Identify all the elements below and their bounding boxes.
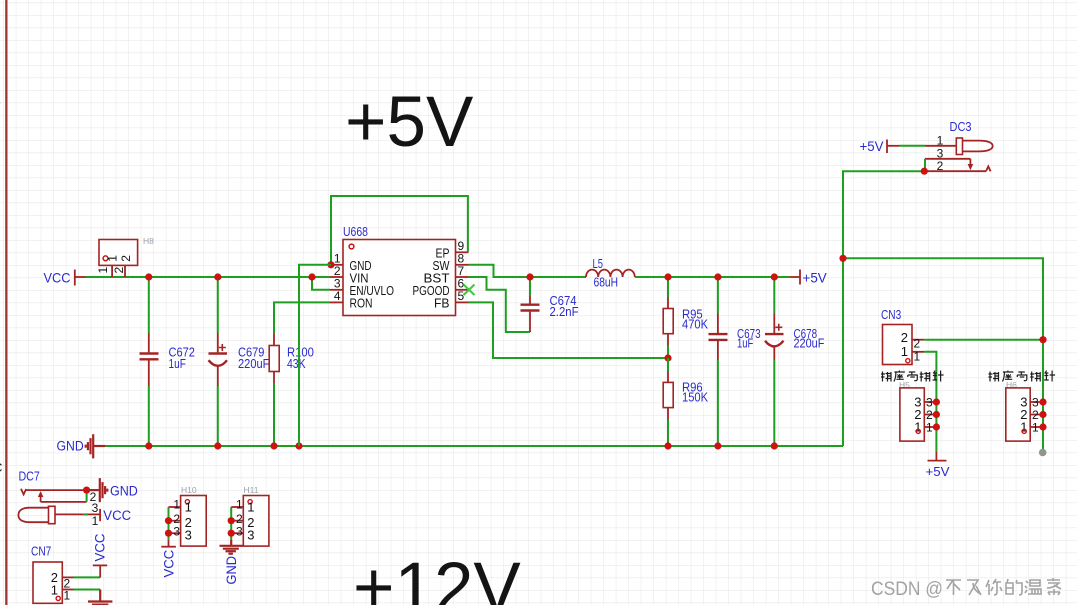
inductor L5 — [586, 270, 635, 277]
svg-text:1: 1 — [247, 500, 254, 515]
svg-text:1: 1 — [236, 498, 243, 512]
svg-text:470K: 470K — [682, 317, 708, 332]
wire +5V horizontal to right — [843, 258, 1043, 452]
svg-text:150K: 150K — [682, 390, 708, 405]
junction C678 bottom — [771, 442, 778, 449]
wire pin1 to GND rail — [299, 265, 331, 446]
resistor R100 — [273, 303, 275, 335]
junction pin1 — [327, 261, 334, 268]
wire BST to C674 bottom — [469, 277, 531, 332]
capacitor C674 — [529, 277, 531, 296]
power GND at DC7 — [87, 478, 108, 502]
svg-text:2.2nF: 2.2nF — [550, 304, 579, 319]
H11 pin 3 — [231, 532, 243, 534]
U668 pin 6 PGOOD — [456, 289, 469, 291]
svg-text:VCC: VCC — [161, 549, 176, 577]
header socket label B (CJK, drawn as paths) — [989, 371, 1056, 382]
junction DC3 pin2 — [921, 168, 928, 175]
junction C678 top — [771, 273, 778, 280]
junction C672/VCC — [145, 273, 152, 280]
svg-text:3: 3 — [247, 528, 254, 543]
wire DC3 pin3 jog — [924, 159, 926, 171]
H5 pin 2 — [924, 414, 936, 416]
svg-text:3: 3 — [185, 528, 192, 543]
wire +5V to DC3 pin1 — [899, 145, 925, 147]
connector H8 — [99, 240, 138, 266]
svg-text:VCC: VCC — [93, 533, 108, 561]
svg-text:2: 2 — [901, 330, 908, 345]
wire nub on DC7 pin1 — [83, 513, 88, 515]
svg-text:3: 3 — [173, 524, 180, 538]
junction C673 bottom — [714, 442, 721, 449]
sheet border left edge — [5, 0, 7, 605]
wire SW to rail — [469, 265, 587, 277]
wire +5V vertical net — [843, 171, 924, 446]
svg-text:GND: GND — [224, 556, 239, 585]
H6 pin 3 — [1030, 401, 1043, 403]
header H5 body — [900, 388, 924, 441]
svg-text:68uH: 68uH — [594, 275, 619, 290]
H5 pin 3 — [924, 401, 936, 403]
power GND below CN7 wire — [88, 590, 112, 605]
watermark CJK glyphs — [946, 578, 1061, 595]
svg-text:VCC: VCC — [103, 508, 131, 523]
H11 pin 1 — [231, 506, 243, 508]
H5 pin 1 — [924, 426, 936, 428]
power VCC below H10 — [168, 540, 170, 547]
junction +5V corner — [839, 255, 846, 262]
CN3 pin 2 — [912, 339, 924, 341]
junction DC7 pin2 — [83, 487, 90, 494]
junction dots on GND rail — [145, 442, 152, 449]
port +5V mid — [790, 276, 800, 278]
wire CN3 pin1 down — [924, 352, 936, 452]
svg-text:1: 1 — [901, 344, 908, 359]
junction pin2 — [308, 273, 315, 280]
U668 pin 5 FB — [456, 301, 469, 303]
svg-text:1: 1 — [926, 420, 933, 434]
U668 pin 8 SW — [456, 264, 469, 266]
junction R95/R96 FB node — [664, 354, 671, 361]
svg-text:C: C — [0, 460, 2, 475]
svg-text:CSDN @: CSDN @ — [871, 579, 943, 600]
svg-text:1: 1 — [51, 582, 58, 597]
power VCC above CN7 wire — [99, 565, 101, 577]
H6 pin 2 — [1030, 414, 1043, 416]
U668 pin 7 BST — [456, 276, 469, 278]
svg-text:3: 3 — [236, 524, 243, 538]
junction R95/VCC — [664, 273, 671, 280]
svg-text:DC3: DC3 — [950, 119, 972, 134]
resistor R96 — [667, 358, 669, 371]
svg-text:+5V: +5V — [803, 270, 828, 286]
svg-text:5: 5 — [458, 289, 465, 303]
header H6 body — [1006, 388, 1030, 441]
no-ERC cross on PGOOD — [464, 285, 475, 296]
svg-text:43K: 43K — [287, 356, 306, 371]
wire FB to divider — [469, 302, 669, 358]
svg-text:H10: H10 — [181, 485, 197, 495]
svg-text:1uF: 1uF — [169, 356, 186, 371]
U668 pin 1 GND — [330, 264, 343, 266]
svg-text:3: 3 — [92, 501, 99, 515]
svg-text:1: 1 — [64, 588, 71, 602]
svg-text:RON: RON — [350, 295, 373, 310]
junction R96/GND — [664, 442, 671, 449]
CN7 pin 1 — [62, 589, 73, 591]
wire H11 pins — [230, 507, 232, 540]
svg-text:1: 1 — [185, 500, 192, 515]
svg-text:2: 2 — [119, 255, 133, 262]
svg-text:1uF: 1uF — [737, 336, 753, 351]
U668 pin 3 EN/UVLO — [330, 289, 343, 291]
svg-text:1: 1 — [937, 133, 944, 147]
U668 pin 4 RON — [330, 301, 343, 303]
svg-text:1: 1 — [914, 350, 921, 364]
wire pin4 RON to R100 — [274, 302, 330, 334]
svg-text:8: 8 — [0, 94, 1, 109]
svg-text:GND: GND — [110, 483, 138, 498]
wire GND-EP loop — [331, 196, 468, 265]
capacitor C672 — [148, 277, 150, 333]
svg-text:H11: H11 — [244, 485, 259, 495]
svg-text:1: 1 — [173, 498, 180, 512]
capacitor C673 — [717, 277, 719, 314]
svg-text:U668: U668 — [343, 224, 368, 239]
junction C679/VCC — [214, 273, 221, 280]
svg-text:1: 1 — [96, 267, 110, 274]
svg-text:1: 1 — [106, 255, 120, 262]
op-amp U668 body — [343, 240, 456, 316]
capacitor C678 polarized — [773, 277, 775, 314]
svg-text:H8: H8 — [143, 236, 154, 246]
H10 pin 2 — [169, 520, 181, 522]
svg-text:GND: GND — [57, 439, 84, 454]
power +5V below H5 — [935, 452, 937, 461]
svg-text:+5V: +5V — [860, 138, 885, 154]
junction C674/SW — [526, 273, 533, 280]
H8 pin 2 — [124, 265, 126, 277]
wire CN7 pin1 to GND — [74, 589, 101, 591]
H10 pin 1 — [169, 506, 181, 508]
svg-text:4: 4 — [334, 289, 341, 303]
svg-text:220uF: 220uF — [238, 356, 269, 371]
H6 pin 1 — [1030, 426, 1043, 428]
header socket label A (CJK, drawn as paths) — [881, 371, 944, 382]
H8 pin 1 — [111, 265, 113, 277]
power GND below H11 — [220, 540, 243, 554]
svg-text:2: 2 — [914, 336, 921, 350]
CN7 pin 2 — [62, 576, 73, 578]
wire VCC rail — [86, 276, 330, 278]
svg-text:L5: L5 — [593, 256, 603, 271]
port VCC at DC7 — [99, 509, 101, 521]
svg-text:+5V: +5V — [926, 464, 950, 479]
wire CN7 pin2 to VCC — [74, 576, 101, 578]
wire CN3 pin2 to +5V net — [924, 339, 1043, 341]
svg-text:VCC: VCC — [44, 270, 71, 286]
svg-text:FB: FB — [434, 295, 450, 310]
wire GND rail — [105, 445, 843, 447]
gray net end dot — [1039, 449, 1047, 457]
svg-text:+12V: +12V — [353, 549, 521, 605]
resistor R95 — [667, 277, 669, 297]
CN3 pin 1 — [912, 351, 924, 353]
wire DC7 pin3 stub — [86, 490, 88, 502]
wire EN jog to VIN — [312, 277, 330, 290]
wire L5 to +5V port — [635, 276, 790, 278]
svg-text:CN3: CN3 — [881, 307, 901, 322]
svg-text:1: 1 — [92, 514, 99, 528]
svg-text:2: 2 — [112, 267, 126, 274]
H11 pin 2 — [231, 520, 243, 522]
wire H10 pins — [168, 507, 170, 540]
junction C673 top — [714, 273, 721, 280]
svg-text:1: 1 — [1032, 420, 1039, 434]
svg-text:+5V: +5V — [345, 83, 474, 162]
U668 pin 2 VIN — [330, 276, 343, 278]
H10 pin 3 — [169, 532, 181, 534]
U668 pin 9 EP — [456, 251, 469, 253]
svg-text:DC7: DC7 — [19, 469, 40, 484]
svg-text:CN7: CN7 — [31, 544, 51, 559]
capacitor C679 polarized — [217, 277, 219, 333]
svg-text:220uF: 220uF — [794, 336, 825, 351]
